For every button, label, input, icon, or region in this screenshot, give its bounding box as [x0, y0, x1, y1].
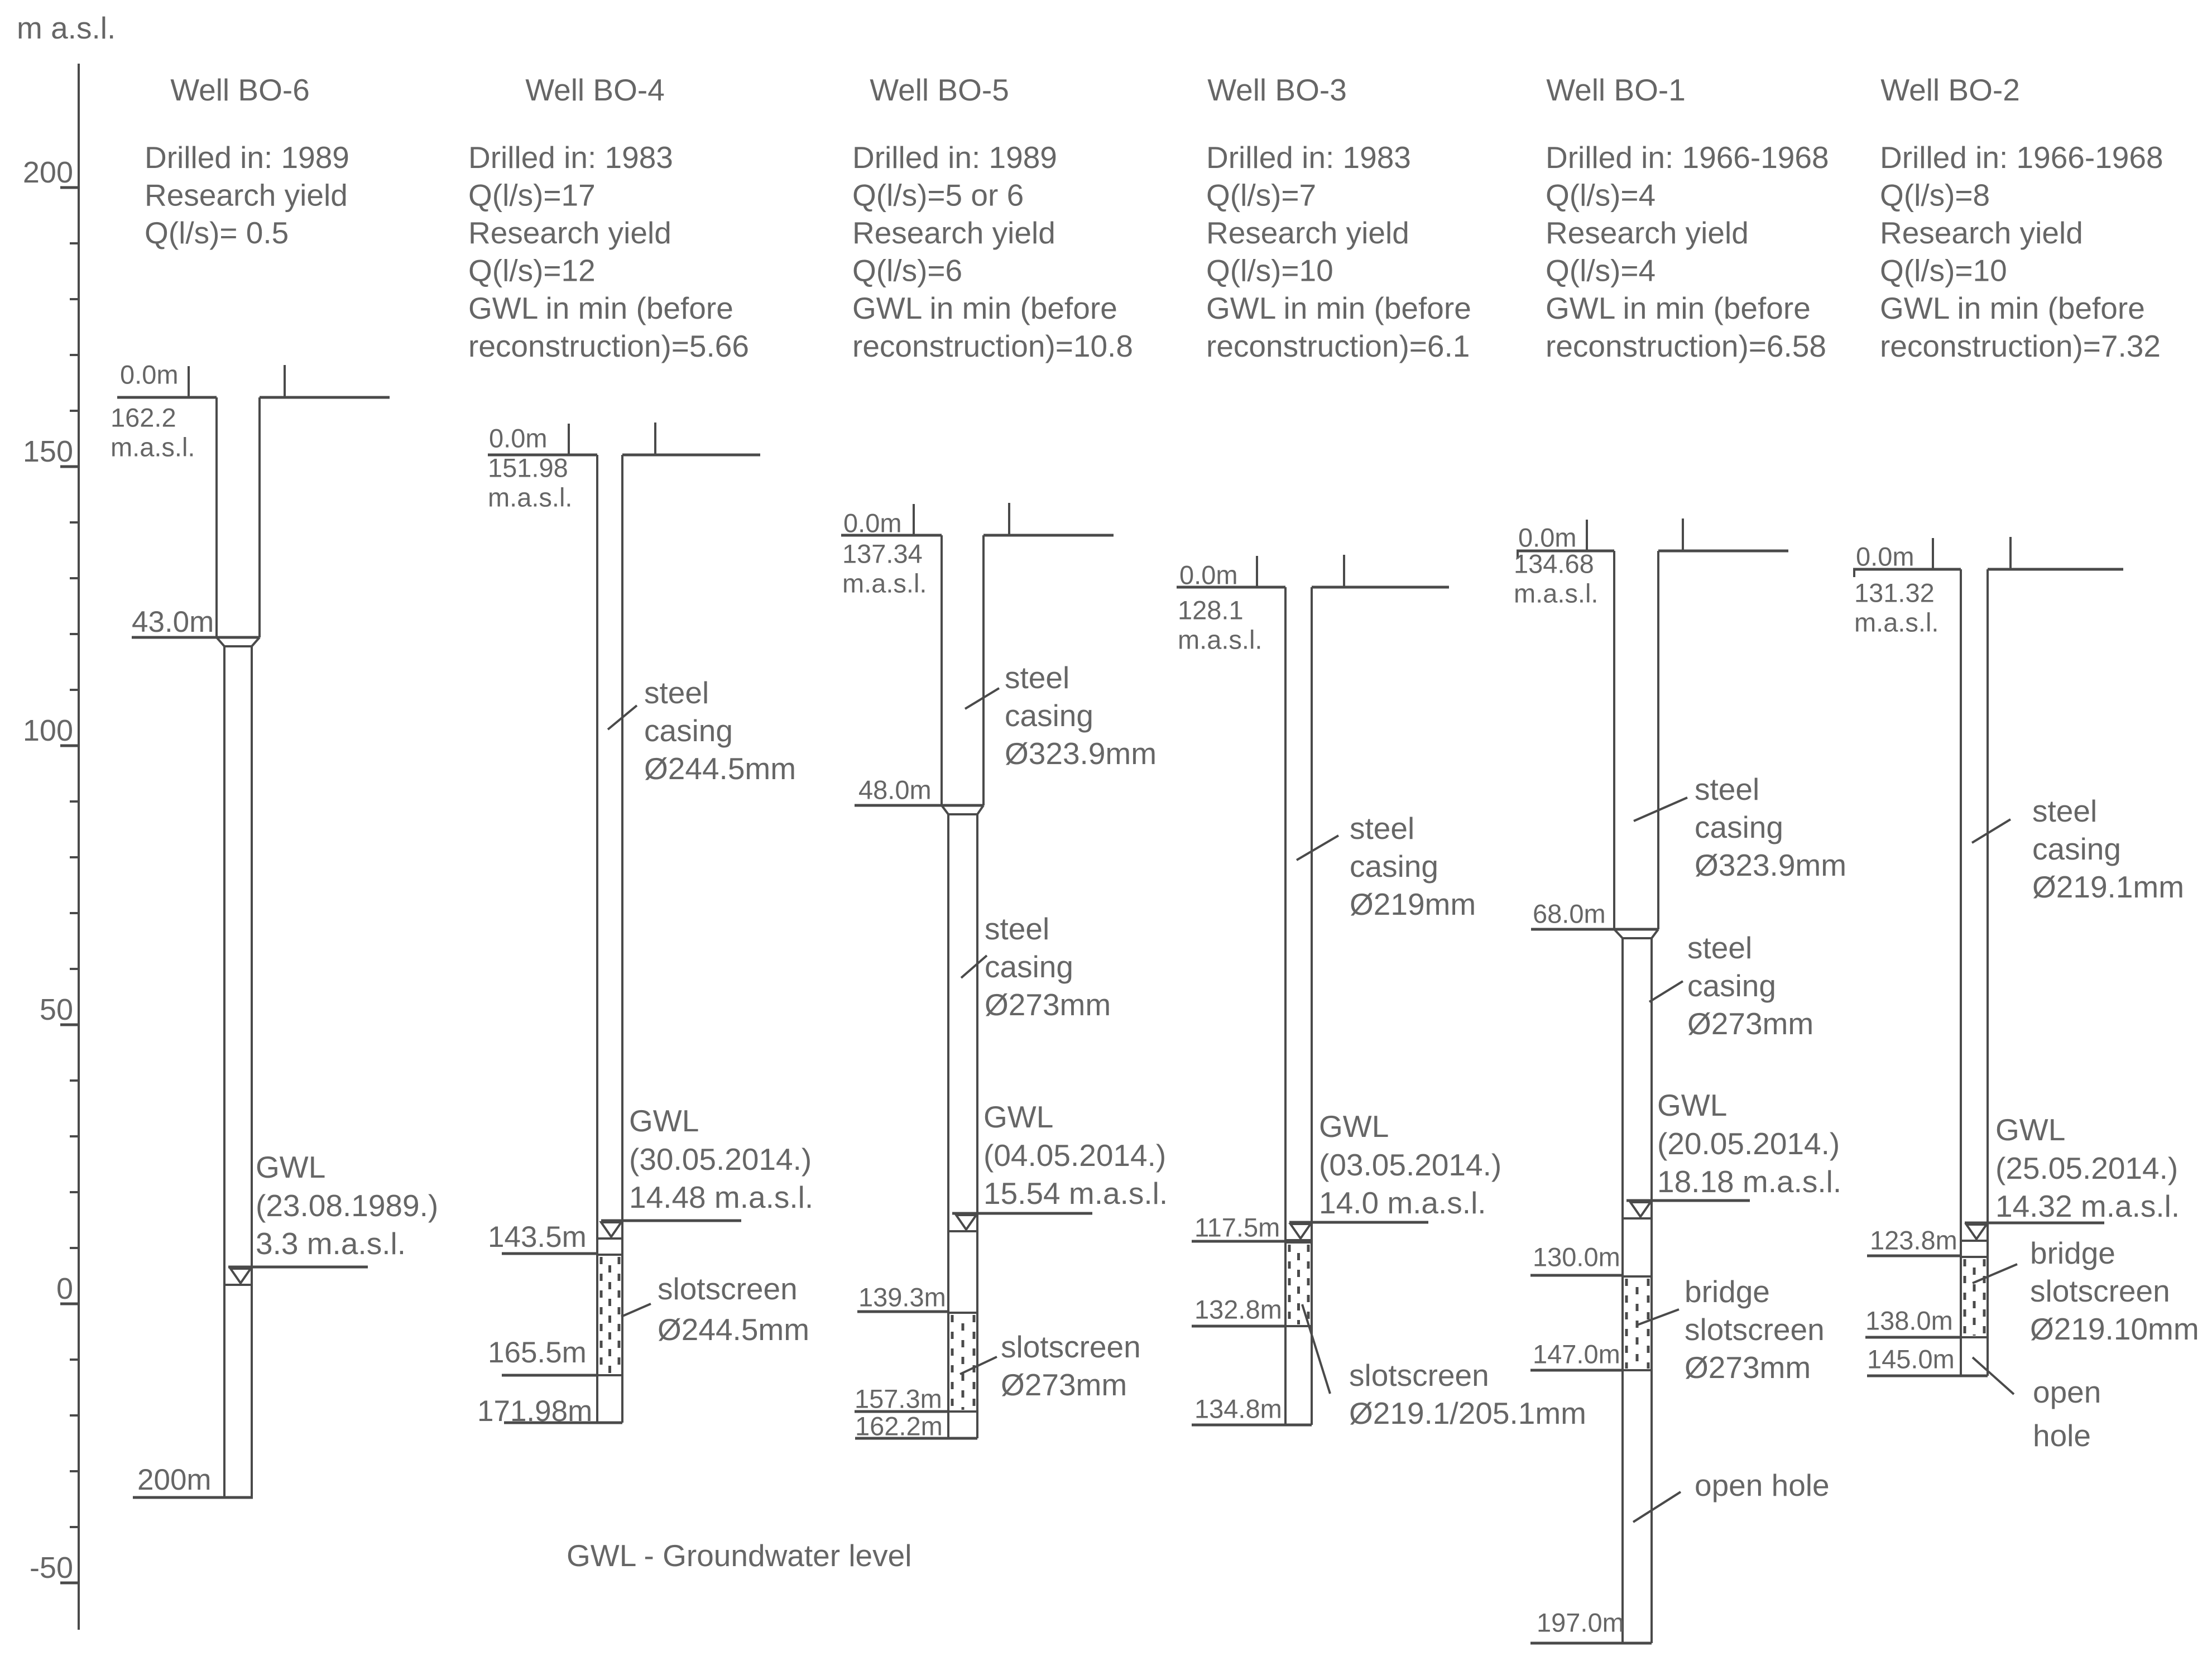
svg-text:steel: steel	[1695, 772, 1759, 807]
GWL line across casing well BO-2	[1961, 1240, 1988, 1242]
well BO-5 slotscreen dashed slots column 2	[962, 1315, 965, 1410]
svg-text:151.98: 151.98	[488, 453, 568, 483]
svg-text:(23.08.1989.): (23.08.1989.)	[256, 1188, 438, 1223]
well BO-3 slotscreen dashed slots column 3	[1307, 1245, 1310, 1324]
well BO-5 slotscreen top line	[948, 1312, 977, 1314]
well BO-6 inner casing left wall	[223, 646, 225, 1497]
svg-text:steel: steel	[1005, 660, 1069, 695]
svg-text:200: 200	[23, 156, 73, 189]
well BO-4 slotscreen dashed slots column 2	[608, 1257, 611, 1374]
well BO-2 bridge slotscreen dashed slots column 1	[1964, 1259, 1966, 1336]
well BO-1 outer casing right wall	[1657, 551, 1659, 929]
svg-text:m.a.s.l.: m.a.s.l.	[1178, 625, 1262, 655]
svg-text:Ø323.9mm: Ø323.9mm	[1695, 848, 1846, 882]
svg-text:GWL in min (before: GWL in min (before	[468, 291, 733, 325]
svg-text:Well BO-5: Well BO-5	[870, 73, 1009, 107]
well BO-5 slotscreen bottom line	[948, 1410, 977, 1413]
svg-text:Ø244.5mm: Ø244.5mm	[658, 1312, 809, 1347]
well BO-4 steel casing leader line	[608, 705, 637, 729]
svg-text:134.8m: 134.8m	[1194, 1394, 1282, 1424]
svg-text:GWL: GWL	[1995, 1112, 2065, 1147]
svg-text:reconstruction)=10.8: reconstruction)=10.8	[852, 329, 1133, 363]
svg-text:Ø244.5mm: Ø244.5mm	[644, 751, 796, 786]
well BO-5 slotscreen leader line	[960, 1357, 997, 1374]
svg-text:GWL: GWL	[256, 1150, 325, 1184]
svg-text:Q(l/s)=8: Q(l/s)=8	[1880, 177, 1990, 212]
svg-text:Q(l/s)=17: Q(l/s)=17	[468, 177, 596, 212]
well BO-4 bottom line 171.98m	[504, 1422, 622, 1424]
axis minor tick y=636	[70, 354, 80, 356]
axis minor tick y=2436	[70, 1358, 80, 1361]
well BO-3 casing left wall	[1284, 587, 1287, 1425]
svg-text:casing: casing	[1350, 849, 1438, 884]
well BO-1 inner casing left wall	[1621, 938, 1624, 1643]
GWL level line well BO-6	[228, 1266, 368, 1269]
svg-text:steel: steel	[1350, 811, 1414, 846]
svg-text:0.0m: 0.0m	[843, 508, 902, 538]
svg-text:132.8m: 132.8m	[1194, 1295, 1282, 1324]
well BO-3 slotscreen dashed slots column 2	[1297, 1245, 1300, 1324]
well BO-1 bridge slotscreen top line	[1623, 1275, 1652, 1278]
well BO-1 outer casing left wall	[1613, 551, 1615, 929]
well BO-2 casing right wall	[1987, 569, 1989, 1376]
svg-text:Well BO-1: Well BO-1	[1546, 73, 1686, 107]
axis major tick 150 m	[60, 465, 80, 468]
well BO-4 casing left wall	[596, 455, 598, 1423]
svg-text:0.0m: 0.0m	[1179, 560, 1238, 590]
svg-text:139.3m: 139.3m	[858, 1283, 946, 1312]
svg-text:slotscreen: slotscreen	[1685, 1312, 1825, 1347]
axis major tick 100 m	[60, 745, 80, 747]
well BO-2 ground surface line right	[1988, 568, 2123, 571]
svg-text:bridge: bridge	[1685, 1274, 1770, 1309]
well BO-5 depth line 157.3m	[855, 1410, 948, 1413]
svg-text:Q(l/s)=6: Q(l/s)=6	[852, 253, 962, 288]
well BO-6 bottom line 200m	[133, 1496, 253, 1499]
axis minor tick y=2736	[70, 1526, 80, 1528]
well BO-6 reduction seat line	[224, 645, 252, 647]
axis minor tick y=1936	[70, 1079, 80, 1082]
well BO-6 surface tick left	[188, 366, 190, 397]
well BO-2 ground surface line left	[1853, 568, 1961, 571]
well BO-1 bottom line 197.0m	[1530, 1642, 1652, 1645]
svg-text:Ø219.1/205.1mm: Ø219.1/205.1mm	[1349, 1396, 1586, 1430]
svg-text:Research yield: Research yield	[468, 215, 671, 250]
GWL line across casing well BO-1	[1623, 1217, 1652, 1220]
well BO-6 reduction shoulder right chamfer	[252, 637, 260, 646]
well BO-2 depth line 138.0m	[1865, 1336, 1961, 1339]
well BO-2 bridge slotscreen dashed slots column 2	[1973, 1259, 1976, 1336]
well BO-4 surface tick left	[568, 424, 570, 455]
svg-text:134.68: 134.68	[1514, 549, 1594, 579]
axis minor tick y=1436	[70, 800, 80, 803]
well BO-4 slotscreen top line	[597, 1254, 622, 1256]
well BO-1 left end hook	[1517, 551, 1519, 559]
svg-text:165.5m: 165.5m	[488, 1336, 587, 1369]
well BO-3 ground surface line right	[1312, 586, 1449, 589]
well BO-5 bottom line 162.2m	[855, 1437, 977, 1440]
svg-text:131.32: 131.32	[1854, 578, 1935, 608]
svg-text:Drilled in: 1983: Drilled in: 1983	[1206, 140, 1411, 175]
svg-text:m.a.s.l.: m.a.s.l.	[488, 483, 572, 512]
GWL line across casing well BO-3	[1285, 1239, 1312, 1241]
svg-text:Research yield: Research yield	[145, 177, 348, 212]
svg-text:steel: steel	[985, 911, 1049, 946]
svg-text:Research yield: Research yield	[1206, 215, 1409, 250]
svg-text:GWL: GWL	[629, 1103, 699, 1138]
svg-text:GWL - Groundwater level: GWL - Groundwater level	[567, 1538, 911, 1573]
axis minor tick y=536	[70, 298, 80, 300]
well BO-2 bridge slotscreen bottom line	[1961, 1336, 1988, 1338]
svg-text:GWL: GWL	[983, 1100, 1053, 1134]
well BO-3 slotscreen top line	[1285, 1241, 1312, 1244]
GWL level line well BO-2	[1965, 1222, 2104, 1225]
well BO-2 bottom line 145.0m	[1867, 1375, 1988, 1377]
GWL line across casing well BO-4	[597, 1237, 622, 1240]
well BO-5 steel casing Ø273mm leader line	[961, 956, 987, 978]
svg-text:Ø273mm: Ø273mm	[1001, 1367, 1127, 1402]
well BO-4 slotscreen bottom line	[597, 1374, 622, 1376]
svg-text:reconstruction)=7.32: reconstruction)=7.32	[1880, 329, 2161, 363]
svg-text:Well BO-4: Well BO-4	[525, 73, 665, 107]
well BO-1 bridge slotscreen dashed slots column 2	[1636, 1279, 1639, 1369]
well BO-1 bridge slotscreen dashed slots column 1	[1625, 1279, 1628, 1369]
well BO-3 depth line 117.5m	[1192, 1240, 1285, 1243]
svg-text:bridge: bridge	[2030, 1236, 2115, 1270]
svg-text:(20.05.2014.): (20.05.2014.)	[1657, 1126, 1840, 1161]
axis minor tick y=2536	[70, 1414, 80, 1417]
svg-text:GWL in min (before: GWL in min (before	[852, 291, 1117, 325]
svg-text:Research yield: Research yield	[1546, 215, 1749, 250]
svg-text:open: open	[2033, 1375, 2101, 1409]
well BO-5 depth line 48.0m across casing	[855, 804, 983, 807]
svg-text:14.0 m.a.s.l.: 14.0 m.a.s.l.	[1319, 1185, 1486, 1220]
svg-text:14.48 m.a.s.l.: 14.48 m.a.s.l.	[629, 1180, 813, 1214]
svg-text:Well BO-2: Well BO-2	[1880, 73, 2020, 107]
axis major tick -50 m	[60, 1582, 80, 1585]
svg-text:hole: hole	[2033, 1418, 2091, 1453]
svg-text:(30.05.2014.): (30.05.2014.)	[629, 1142, 812, 1177]
well BO-5 ground surface line right	[983, 534, 1114, 537]
svg-text:Ø273mm: Ø273mm	[1685, 1350, 1811, 1385]
svg-text:(03.05.2014.): (03.05.2014.)	[1319, 1148, 1501, 1182]
axis minor tick y=1636	[70, 912, 80, 914]
svg-text:162.2: 162.2	[111, 403, 176, 433]
well BO-2 casing left wall	[1960, 569, 1962, 1376]
well BO-5 ground surface line left	[841, 534, 942, 537]
svg-text:slotscreen: slotscreen	[1349, 1358, 1489, 1393]
svg-text:Ø273mm: Ø273mm	[1687, 1006, 1813, 1041]
svg-text:Ø219.1mm: Ø219.1mm	[2032, 870, 2184, 904]
well BO-3 surface tick right	[1343, 555, 1345, 587]
svg-text:48.0m: 48.0m	[858, 775, 932, 805]
well BO-4 surface tick right	[654, 423, 656, 455]
well BO-1 depth line 130.0m	[1530, 1274, 1623, 1277]
svg-text:Drilled in: 1989: Drilled in: 1989	[145, 140, 349, 175]
svg-text:casing: casing	[644, 713, 733, 748]
well BO-3 surface tick left	[1256, 556, 1258, 587]
GWL triangle symbol well BO-4	[601, 1222, 621, 1237]
well BO-5 inner casing right wall	[976, 814, 978, 1438]
well BO-1 depth line 147.0m	[1530, 1369, 1623, 1372]
axis minor tick y=736	[70, 410, 80, 412]
svg-text:Ø323.9mm: Ø323.9mm	[1005, 736, 1157, 771]
GWL triangle symbol well BO-5	[956, 1215, 976, 1230]
svg-text:casing: casing	[2032, 832, 2121, 866]
well BO-5 inner casing left wall	[947, 814, 949, 1438]
well BO-1 surface tick left	[1586, 520, 1588, 551]
well BO-4 ground surface line right	[622, 454, 760, 457]
svg-text:Q(l/s)=10: Q(l/s)=10	[1880, 253, 2007, 288]
svg-text:(04.05.2014.): (04.05.2014.)	[983, 1138, 1166, 1173]
well BO-1 depth line 68.0m across casing	[1531, 928, 1658, 931]
svg-text:200m: 200m	[137, 1463, 212, 1496]
svg-text:Research yield: Research yield	[852, 215, 1055, 250]
GWL level line well BO-4	[601, 1220, 741, 1222]
svg-text:casing: casing	[1005, 698, 1093, 733]
svg-text:0.0m: 0.0m	[1856, 542, 1914, 572]
GWL level line well BO-5	[952, 1212, 1092, 1215]
well BO-6 depth line 43.0m across casing	[132, 636, 260, 639]
well BO-2 bridge slotscreen dashed slots column 3	[1983, 1259, 1986, 1336]
well BO-4 depth line 143.5m	[502, 1252, 597, 1255]
svg-text:GWL: GWL	[1319, 1109, 1389, 1144]
svg-text:150: 150	[23, 435, 73, 468]
svg-text:Q(l/s)=7: Q(l/s)=7	[1206, 177, 1316, 212]
svg-text:137.34: 137.34	[842, 539, 923, 569]
svg-text:steel: steel	[2032, 794, 2097, 828]
svg-text:0: 0	[56, 1272, 73, 1305]
svg-text:m a.s.l.: m a.s.l.	[17, 11, 116, 45]
svg-text:0.0m: 0.0m	[120, 360, 179, 390]
axis minor tick y=436	[70, 242, 80, 244]
svg-text:Q(l/s)=12: Q(l/s)=12	[468, 253, 596, 288]
axis minor tick y=1736	[70, 968, 80, 970]
svg-text:steel: steel	[644, 675, 709, 710]
svg-text:casing: casing	[985, 949, 1073, 984]
svg-text:43.0m: 43.0m	[132, 606, 214, 639]
GWL triangle symbol well BO-2	[1966, 1225, 1987, 1239]
well BO-4 slotscreen dashed slots column 3	[618, 1257, 621, 1374]
well BO-3 ground surface line left	[1177, 586, 1285, 589]
svg-text:3.3 m.a.s.l.: 3.3 m.a.s.l.	[256, 1226, 406, 1261]
svg-text:68.0m: 68.0m	[1533, 899, 1606, 929]
well BO-2 left end hook	[1853, 569, 1855, 577]
svg-text:Ø219mm: Ø219mm	[1350, 887, 1476, 921]
well BO-1 surface tick right	[1682, 519, 1684, 551]
svg-text:m.a.s.l.: m.a.s.l.	[111, 433, 195, 462]
svg-text:117.5m: 117.5m	[1194, 1213, 1280, 1242]
well BO-6 outer casing left wall	[215, 397, 218, 637]
axis major tick 200 m	[60, 186, 80, 189]
svg-text:138.0m: 138.0m	[1865, 1306, 1953, 1336]
well BO-2 surface tick right	[2009, 537, 2012, 569]
GWL triangle symbol well BO-6	[231, 1269, 251, 1283]
svg-text:157.3m: 157.3m	[855, 1384, 942, 1414]
well BO-1 reduction shoulder left chamfer	[1614, 929, 1623, 938]
svg-text:Research yield: Research yield	[1880, 215, 2083, 250]
well BO-5 reduction shoulder right chamfer	[977, 805, 983, 814]
axis major tick 50 m	[60, 1024, 80, 1026]
well BO-5 outer casing right wall	[982, 535, 985, 805]
svg-text:130.0m: 130.0m	[1533, 1242, 1620, 1272]
svg-text:50: 50	[40, 993, 73, 1026]
well BO-4 slotscreen leader line	[621, 1304, 651, 1317]
well BO-1 steel casing Ø323.9mm leader line	[1634, 798, 1687, 821]
GWL level line well BO-1	[1626, 1199, 1750, 1202]
svg-text:m.a.s.l.: m.a.s.l.	[1514, 579, 1598, 608]
svg-text:Ø219.10mm: Ø219.10mm	[2030, 1312, 2199, 1346]
svg-text:GWL in min (before: GWL in min (before	[1546, 291, 1811, 325]
svg-text:m.a.s.l.: m.a.s.l.	[1854, 608, 1939, 637]
well BO-5 outer casing left wall	[941, 535, 943, 805]
svg-text:GWL in min (before: GWL in min (before	[1206, 291, 1471, 325]
well BO-1 open hole leader line	[1633, 1492, 1681, 1522]
well BO-4 slotscreen dashed slots column 1	[600, 1257, 603, 1374]
svg-text:GWL: GWL	[1657, 1088, 1727, 1122]
well BO-3 depth line 132.8m	[1192, 1325, 1285, 1328]
axis minor tick y=2036	[70, 1135, 80, 1137]
well BO-3 casing right wall	[1311, 587, 1313, 1425]
svg-text:123.8m: 123.8m	[1870, 1226, 1957, 1255]
well BO-6 ground surface line left	[117, 396, 217, 399]
well BO-6 inner casing right wall	[251, 646, 253, 1497]
well BO-5 surface tick right	[1008, 503, 1010, 535]
svg-text:(25.05.2014.): (25.05.2014.)	[1995, 1151, 2178, 1185]
well BO-2 depth line 123.8m	[1867, 1255, 1961, 1257]
svg-text:143.5m: 143.5m	[488, 1221, 587, 1254]
well BO-5 reduction shoulder left chamfer	[942, 805, 948, 814]
axis minor tick y=936	[70, 521, 80, 524]
svg-text:128.1: 128.1	[1178, 596, 1244, 625]
well BO-5 slotscreen dashed slots column 1	[951, 1315, 954, 1410]
well BO-1 bridge slotscreen bottom line	[1623, 1369, 1652, 1371]
well BO-1 reduction shoulder right chamfer	[1652, 929, 1658, 938]
svg-text:casing: casing	[1695, 810, 1783, 844]
svg-text:open hole: open hole	[1695, 1468, 1830, 1502]
well BO-1 bridge slotscreen leader line	[1637, 1309, 1679, 1325]
svg-text:0.0m: 0.0m	[1518, 523, 1577, 553]
svg-text:slotscreen: slotscreen	[658, 1271, 798, 1306]
svg-text:147.0m: 147.0m	[1533, 1340, 1620, 1369]
well BO-3 slotscreen dashed slots column 1	[1288, 1245, 1291, 1324]
elevation axis main line	[78, 64, 80, 1630]
well BO-6 reduction shoulder left chamfer	[217, 637, 224, 646]
svg-text:casing: casing	[1687, 968, 1776, 1003]
axis minor tick y=2636	[70, 1470, 80, 1472]
svg-text:Drilled in: 1983: Drilled in: 1983	[468, 140, 673, 175]
well BO-3 slotscreen bottom line	[1285, 1325, 1312, 1327]
svg-text:Q(l/s)=10: Q(l/s)=10	[1206, 253, 1333, 288]
svg-text:Well BO-6: Well BO-6	[170, 73, 310, 107]
well BO-6 outer casing right wall	[258, 397, 261, 637]
well BO-2 bridge slotscreen leader line	[1973, 1264, 2017, 1283]
axis minor tick y=1236	[70, 689, 80, 691]
GWL triangle symbol well BO-3	[1290, 1224, 1311, 1238]
well BO-4 depth line 165.5m	[502, 1374, 597, 1377]
svg-text:Drilled in: 1966-1968: Drilled in: 1966-1968	[1546, 140, 1829, 175]
svg-text:Ø273mm: Ø273mm	[985, 987, 1111, 1022]
svg-text:-50: -50	[30, 1551, 73, 1585]
well BO-2 open hole leader line	[1973, 1357, 2014, 1394]
well BO-1 reduction seat line	[1623, 937, 1652, 939]
svg-text:reconstruction)=5.66: reconstruction)=5.66	[468, 329, 749, 363]
svg-text:reconstruction)=6.1: reconstruction)=6.1	[1206, 329, 1470, 363]
well BO-1 bridge slotscreen dashed slots column 3	[1647, 1279, 1650, 1369]
svg-text:m.a.s.l.: m.a.s.l.	[842, 569, 927, 598]
svg-text:reconstruction)=6.58: reconstruction)=6.58	[1546, 329, 1826, 363]
well BO-1 ground surface line right	[1658, 550, 1788, 553]
well BO-4 ground surface line left	[488, 454, 597, 457]
svg-text:Well BO-3: Well BO-3	[1207, 73, 1347, 107]
GWL line across casing well BO-6	[224, 1284, 252, 1286]
svg-text:Drilled in: 1966-1968: Drilled in: 1966-1968	[1880, 140, 2163, 175]
svg-text:0.0m: 0.0m	[489, 424, 548, 453]
GWL triangle symbol well BO-1	[1630, 1202, 1650, 1217]
svg-text:Q(l/s)= 0.5: Q(l/s)= 0.5	[145, 215, 289, 250]
axis minor tick y=1536	[70, 856, 80, 858]
well BO-1 inner casing right wall	[1650, 938, 1653, 1643]
well BO-1 steel casing Ø273mm leader line	[1649, 981, 1683, 1002]
svg-text:197.0m: 197.0m	[1537, 1608, 1624, 1638]
well BO-2 bridge slotscreen top line	[1961, 1256, 1988, 1258]
axis minor tick y=2136	[70, 1191, 80, 1193]
well BO-6 surface tick right	[284, 365, 286, 397]
well BO-5 surface tick left	[913, 504, 915, 535]
svg-text:steel: steel	[1687, 930, 1752, 965]
GWL level line well BO-3	[1289, 1221, 1428, 1224]
svg-text:slotscreen: slotscreen	[2030, 1274, 2170, 1308]
svg-text:145.0m: 145.0m	[1867, 1345, 1955, 1374]
well BO-5 depth line 139.3m	[857, 1310, 948, 1313]
svg-text:GWL in min (before: GWL in min (before	[1880, 291, 2145, 325]
svg-text:100: 100	[23, 714, 73, 747]
axis major tick 0 m	[60, 1303, 80, 1305]
well BO-5 steel casing Ø323.9mm leader line	[965, 688, 999, 709]
svg-text:slotscreen: slotscreen	[1001, 1329, 1141, 1364]
well BO-2 steel casing leader line	[1972, 819, 2011, 843]
well BO-4 casing right wall	[621, 455, 623, 1423]
svg-text:18.18 m.a.s.l.: 18.18 m.a.s.l.	[1657, 1164, 1841, 1199]
well BO-1 ground surface line left	[1517, 550, 1614, 553]
axis minor tick y=1036	[70, 577, 80, 579]
well BO-5 slotscreen dashed slots column 3	[973, 1315, 976, 1410]
well BO-5 reduction seat line	[948, 813, 977, 815]
svg-text:Drilled in: 1989: Drilled in: 1989	[852, 140, 1057, 175]
svg-text:14.32 m.a.s.l.: 14.32 m.a.s.l.	[1995, 1189, 2180, 1223]
well BO-3 slotscreen leader line	[1302, 1304, 1330, 1394]
svg-text:Q(l/s)=4: Q(l/s)=4	[1546, 253, 1656, 288]
svg-text:162.2m: 162.2m	[855, 1412, 943, 1441]
well BO-3 bottom line 134.8m	[1192, 1424, 1312, 1427]
GWL line across casing well BO-5	[948, 1230, 977, 1232]
axis minor tick y=1136	[70, 633, 80, 635]
svg-text:Q(l/s)=4: Q(l/s)=4	[1546, 177, 1656, 212]
well BO-3 steel casing leader line	[1297, 836, 1338, 860]
well BO-6 ground surface line right	[260, 396, 390, 399]
svg-text:Q(l/s)=5 or 6: Q(l/s)=5 or 6	[852, 177, 1024, 212]
svg-text:171.98m: 171.98m	[477, 1395, 592, 1428]
svg-text:15.54 m.a.s.l.: 15.54 m.a.s.l.	[983, 1176, 1168, 1211]
axis minor tick y=2236	[70, 1247, 80, 1249]
well BO-2 surface tick left	[1932, 538, 1934, 569]
